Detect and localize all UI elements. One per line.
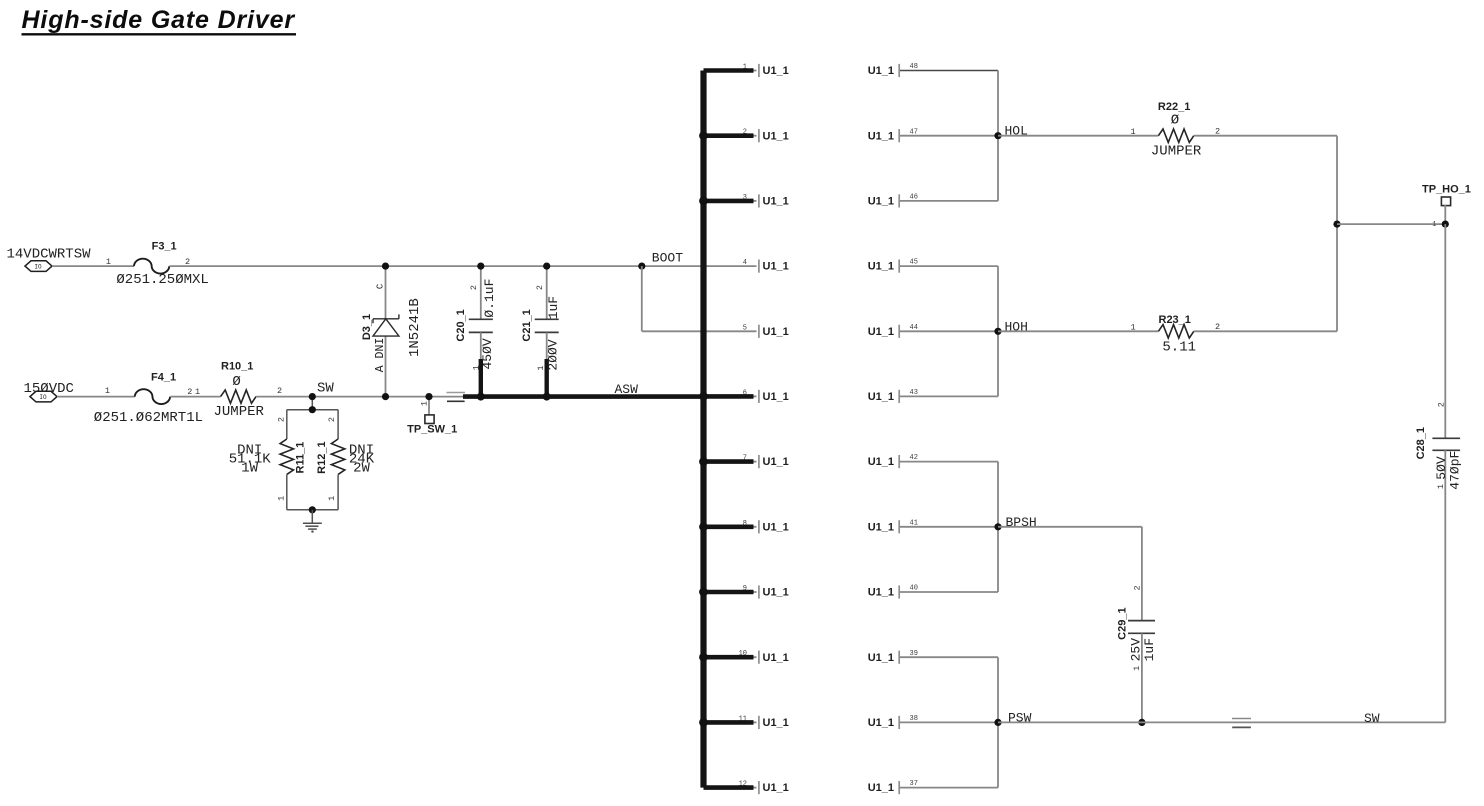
svg-text:1: 1 — [105, 386, 110, 396]
svg-text:Ø: Ø — [232, 374, 240, 390]
pin 45 U1_1 — [900, 265, 998, 267]
capacitor C28_1 — [1444, 224, 1446, 438]
node C20 bottom — [477, 393, 485, 401]
node HOL — [994, 132, 1001, 139]
svg-text:U1_1: U1_1 — [868, 717, 894, 729]
svg-text:12: 12 — [739, 781, 747, 789]
svg-text:10: 10 — [739, 650, 747, 658]
svg-text:BOOT: BOOT — [652, 251, 683, 266]
svg-text:44: 44 — [910, 324, 918, 332]
svg-text:JUMPER: JUMPER — [1151, 143, 1202, 159]
svg-text:Ø.1uF: Ø.1uF — [482, 279, 497, 318]
svg-text:A DNI: A DNI — [374, 338, 387, 373]
ground — [311, 510, 313, 523]
svg-text:U1_1: U1_1 — [868, 326, 894, 338]
svg-text:F4_1: F4_1 — [151, 372, 176, 384]
capacitor C21_1 — [546, 266, 548, 319]
svg-text:Ø: Ø — [1171, 113, 1179, 129]
svg-text:U1_1: U1_1 — [868, 130, 894, 142]
svg-text:1uF: 1uF — [1142, 638, 1157, 661]
svg-text:R10_1: R10_1 — [221, 361, 253, 373]
net style marker SW-ASW — [447, 392, 466, 394]
svg-text:1W: 1W — [241, 460, 258, 476]
fuse F4_1 — [135, 389, 170, 404]
svg-text:U1_1: U1_1 — [868, 521, 894, 533]
pin 6 U1_1 — [704, 394, 754, 399]
svg-text:4: 4 — [743, 259, 747, 267]
resistor box top wire — [287, 409, 338, 411]
svg-text:5: 5 — [743, 324, 747, 332]
wire ASW thick rail — [463, 394, 704, 399]
svg-text:SW: SW — [1364, 711, 1380, 726]
capacitor C20_1 — [480, 266, 482, 319]
svg-text:TP_SW_1: TP_SW_1 — [407, 424, 457, 436]
pin 3 U1_1 — [704, 199, 754, 204]
svg-text:45: 45 — [910, 259, 918, 267]
wire BPSH to C29_1 — [998, 526, 1142, 528]
pin 46 U1_1 — [900, 200, 998, 202]
pin 37 U1_1 — [900, 787, 998, 789]
testpoint TP_HO_1 — [1441, 197, 1450, 206]
pin 41 U1_1 — [900, 526, 998, 528]
node HOH — [994, 328, 1001, 335]
node D3 bottom — [382, 393, 389, 400]
svg-text:U1_1: U1_1 — [763, 65, 789, 77]
pin 4 U1_1 — [758, 260, 760, 273]
svg-text:2: 2 — [469, 285, 479, 290]
svg-text:U1_1: U1_1 — [763, 261, 789, 273]
svg-text:Ø251.25ØMXL: Ø251.25ØMXL — [116, 272, 208, 288]
net style marker PSW-SW — [1232, 718, 1251, 720]
node BOOT — [638, 263, 645, 270]
pin 9 U1_1 — [704, 590, 754, 595]
resistor R10_1 — [221, 390, 256, 403]
svg-text:U1_1: U1_1 — [868, 65, 894, 77]
svg-text:C20_1: C20_1 — [455, 309, 467, 341]
svg-text:U1_1: U1_1 — [763, 652, 789, 664]
svg-text:43: 43 — [910, 389, 918, 397]
svg-text:C: C — [376, 283, 386, 289]
fuse F3_1 — [134, 259, 169, 274]
svg-text:45ØV: 45ØV — [480, 338, 495, 369]
resistor R23_1 — [1158, 325, 1193, 338]
pin 2 U1_1 — [704, 133, 754, 138]
diode D3_1 zener 1N5241B — [385, 266, 387, 319]
pin 44 U1_1 — [900, 330, 998, 332]
svg-text:C28_1: C28_1 — [1415, 427, 1427, 459]
node D3 top — [382, 263, 389, 270]
svg-text:2: 2 — [1132, 585, 1142, 590]
svg-text:R11_1: R11_1 — [295, 442, 307, 474]
pin 11 U1_1 — [704, 720, 754, 725]
svg-text:46: 46 — [910, 194, 918, 202]
wire HO to TP_HO_1 — [1337, 223, 1445, 225]
svg-text:IO: IO — [34, 263, 42, 270]
svg-text:U1_1: U1_1 — [868, 456, 894, 468]
wire BOOT rail F3_1 to pin4 — [169, 265, 756, 267]
resistor R22_1 — [1158, 129, 1193, 142]
wire group PSW vertical — [997, 657, 999, 787]
node C21 bottom — [543, 393, 551, 401]
port 14VDCWRTSW — [25, 261, 52, 272]
svg-text:1: 1 — [1130, 127, 1135, 137]
wire F4_1 to R10_1 — [170, 396, 220, 398]
svg-text:1: 1 — [1432, 221, 1436, 229]
svg-text:15ØVDC: 15ØVDC — [24, 381, 74, 397]
svg-text:1: 1 — [743, 64, 747, 72]
svg-text:5.11: 5.11 — [1162, 339, 1196, 355]
svg-text:C29_1: C29_1 — [1117, 607, 1129, 639]
pin 48 U1_1 — [900, 70, 998, 72]
svg-text:2: 2 — [276, 417, 286, 422]
wire SW to resistor box — [311, 397, 313, 410]
svg-text:Ø251.Ø62MRT1L: Ø251.Ø62MRT1L — [94, 410, 203, 426]
svg-text:U1_1: U1_1 — [763, 456, 789, 468]
svg-text:D3_1: D3_1 — [361, 314, 373, 340]
wire 14VDCWRTSW to F3_1 — [52, 265, 134, 267]
wire group HOL vertical — [997, 71, 999, 201]
svg-text:48: 48 — [910, 63, 918, 71]
svg-text:2: 2 — [743, 129, 747, 137]
svg-text:1: 1 — [195, 387, 200, 397]
svg-text:TP_HO_1: TP_HO_1 — [1422, 184, 1471, 196]
svg-text:U1_1: U1_1 — [763, 587, 789, 599]
svg-text:F3_1: F3_1 — [152, 240, 177, 252]
svg-text:7: 7 — [743, 455, 747, 463]
node C21 top — [543, 263, 550, 270]
svg-text:1: 1 — [1130, 323, 1135, 333]
svg-text:U1_1: U1_1 — [763, 717, 789, 729]
svg-text:1: 1 — [420, 401, 430, 406]
wire HOL to R22_1 — [998, 135, 1158, 137]
svg-text:41: 41 — [910, 519, 918, 527]
resistor box bottom wire — [287, 509, 338, 511]
resistor R11_1 — [286, 410, 288, 439]
wire PSW to SW — [998, 721, 1445, 723]
pin 5 U1_1 — [758, 325, 760, 338]
wire group BPSH vertical — [997, 462, 999, 592]
svg-text:SW: SW — [317, 381, 334, 397]
pin 1 U1_1 — [704, 68, 754, 73]
node HO — [1333, 221, 1340, 228]
svg-text:U1_1: U1_1 — [868, 652, 894, 664]
pin 10 U1_1 — [704, 655, 754, 660]
capacitor C29_1 — [1128, 620, 1155, 622]
pin 7 U1_1 — [704, 459, 754, 464]
svg-text:47ØpF: 47ØpF — [1448, 451, 1463, 490]
resistor R12_1 — [337, 410, 339, 439]
svg-text:C21_1: C21_1 — [521, 309, 533, 341]
svg-text:1: 1 — [1132, 666, 1142, 671]
svg-text:R23_1: R23_1 — [1159, 314, 1191, 326]
svg-text:U1_1: U1_1 — [868, 587, 894, 599]
svg-text:2: 2 — [187, 387, 192, 397]
svg-text:U1_1: U1_1 — [763, 521, 789, 533]
pin 39 U1_1 — [900, 656, 998, 658]
wire HO vertical — [1336, 136, 1338, 332]
svg-text:U1_1: U1_1 — [868, 782, 894, 794]
svg-text:8: 8 — [743, 520, 747, 528]
wire R22_1 to HO vertical — [1194, 135, 1337, 137]
svg-text:2: 2 — [327, 417, 337, 422]
svg-text:R22_1: R22_1 — [1158, 101, 1190, 113]
svg-text:42: 42 — [910, 454, 918, 462]
svg-text:High-side Gate Driver: High-side Gate Driver — [22, 6, 296, 34]
svg-text:1N5241B: 1N5241B — [407, 298, 423, 357]
node C20 top — [477, 263, 484, 270]
svg-text:1: 1 — [536, 365, 546, 370]
svg-text:47: 47 — [910, 128, 918, 136]
svg-text:2: 2 — [535, 285, 545, 290]
svg-text:U1_1: U1_1 — [868, 261, 894, 273]
svg-text:11: 11 — [739, 715, 747, 723]
svg-text:2ØØV: 2ØØV — [546, 339, 561, 370]
svg-text:1: 1 — [276, 496, 286, 501]
svg-text:1: 1 — [106, 257, 111, 267]
pin 47 U1_1 — [900, 135, 998, 137]
svg-text:39: 39 — [910, 650, 918, 658]
svg-text:U1_1: U1_1 — [868, 196, 894, 208]
svg-text:U1_1: U1_1 — [763, 326, 789, 338]
node TP_HO junction — [1442, 221, 1449, 228]
svg-text:1: 1 — [471, 365, 481, 370]
pin 43 U1_1 — [900, 395, 998, 397]
svg-text:40: 40 — [910, 585, 918, 593]
svg-text:U1_1: U1_1 — [763, 391, 789, 403]
svg-text:3: 3 — [743, 194, 747, 202]
pin 40 U1_1 — [900, 591, 998, 593]
svg-text:U1_1: U1_1 — [868, 391, 894, 403]
pin 8 U1_1 — [704, 524, 754, 529]
pin 42 U1_1 — [900, 461, 998, 463]
svg-text:U1_1: U1_1 — [763, 196, 789, 208]
wire 150VDC to F4_1 — [57, 396, 135, 398]
wire HOH to R23_1 — [998, 330, 1158, 332]
wire BOOT drop to pin5 — [641, 266, 643, 331]
testpoint TP_SW_1 — [428, 397, 430, 415]
pin 38 U1_1 — [900, 721, 998, 723]
svg-text:1: 1 — [1436, 484, 1446, 489]
svg-text:2W: 2W — [353, 460, 370, 476]
wire ASW vertical bus — [700, 71, 706, 788]
svg-text:37: 37 — [910, 780, 918, 788]
node PSW — [994, 719, 1001, 726]
svg-text:1uF: 1uF — [546, 296, 561, 319]
port 150VDC — [30, 391, 57, 402]
svg-text:JUMPER: JUMPER — [214, 404, 265, 420]
svg-text:1: 1 — [327, 496, 337, 501]
node C29 bottom — [1138, 719, 1145, 726]
svg-text:14VDCWRTSW: 14VDCWRTSW — [7, 247, 92, 263]
node BPSH — [994, 523, 1001, 530]
svg-text:6: 6 — [743, 389, 747, 397]
svg-text:ASW: ASW — [615, 382, 639, 397]
pin 12 U1_1 — [704, 785, 754, 790]
svg-text:R12_1: R12_1 — [316, 441, 328, 473]
node SW junction — [309, 393, 316, 400]
svg-text:2: 2 — [277, 386, 282, 396]
wire R23_1 to HO vertical — [1194, 330, 1337, 332]
svg-text:2: 2 — [1437, 402, 1447, 407]
wire group HOH vertical — [997, 266, 999, 396]
svg-text:38: 38 — [910, 715, 918, 723]
svg-text:U1_1: U1_1 — [763, 782, 789, 794]
svg-text:U1_1: U1_1 — [763, 130, 789, 142]
wire R10_1 to SW node — [256, 396, 466, 398]
svg-text:9: 9 — [743, 585, 747, 593]
